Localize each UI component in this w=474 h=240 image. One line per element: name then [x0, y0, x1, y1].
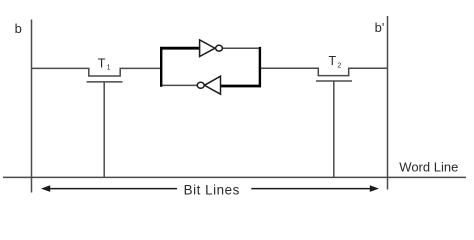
- svg-text:b: b: [15, 21, 22, 36]
- svg-text:2: 2: [337, 63, 341, 70]
- svg-text:1: 1: [107, 65, 111, 72]
- svg-text:b': b': [375, 20, 385, 35]
- svg-text:Bit Lines: Bit Lines: [184, 182, 240, 197]
- svg-text:T: T: [98, 57, 106, 71]
- svg-text:T: T: [329, 54, 337, 68]
- svg-text:Word Line: Word Line: [399, 159, 458, 174]
